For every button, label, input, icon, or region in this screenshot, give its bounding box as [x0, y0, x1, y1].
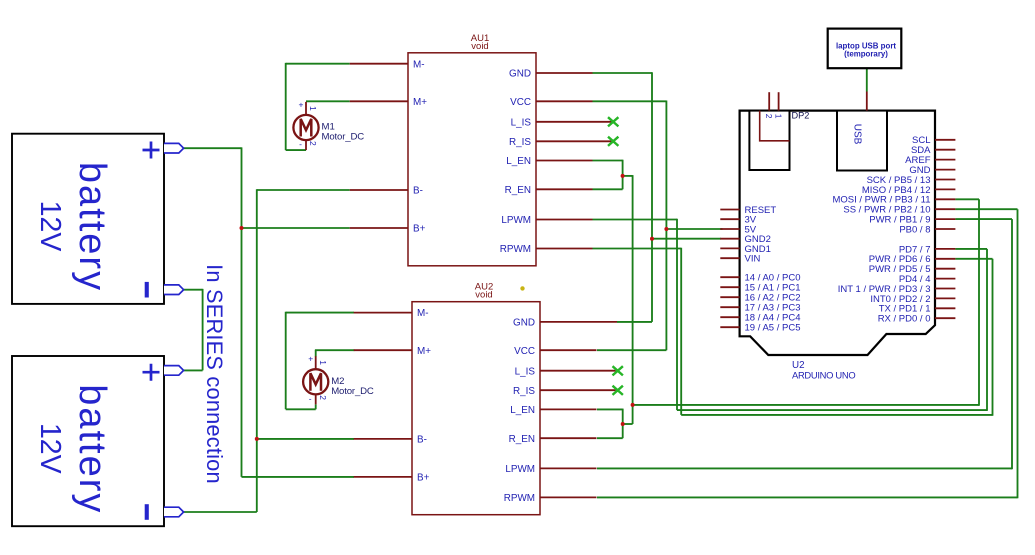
AU2 pin B+	[354, 473, 430, 484]
M2 name label	[331, 376, 374, 397]
wire B+ branch to AU1 B+	[242, 227, 350, 229]
svg-text:RX / PD0 / 0: RX / PD0 / 0	[878, 314, 931, 325]
svg-text:1: 1	[308, 106, 318, 111]
svg-text:+: +	[308, 354, 313, 364]
arduino pin PWR / PD5 / 5	[869, 264, 956, 275]
wire battery1- to battery2+	[184, 289, 203, 371]
svg-text:battery: battery	[71, 162, 113, 292]
wire motor M1 pin1 to AU1 M+	[306, 100, 350, 102]
wire B- branch to AU2 B-	[257, 438, 354, 440]
AU2 label	[475, 282, 493, 301]
svg-text:battery: battery	[71, 384, 113, 514]
svg-text:GND: GND	[509, 69, 531, 80]
svg-text:L_IS: L_IS	[515, 366, 536, 377]
12V battery 2 plus symbol	[143, 364, 160, 381]
AU2 pin B-	[354, 435, 427, 446]
svg-text:R_EN: R_EN	[505, 185, 531, 196]
arduino pin INT0 / PD2 / 2	[870, 294, 955, 305]
arduino pin 18 / A4 / PC4	[720, 313, 800, 324]
battery 12V battery 2 body	[12, 356, 164, 526]
12V battery 1 positive terminal	[164, 143, 184, 153]
M2 pin labels	[308, 354, 328, 404]
junction 5V / arduino 5V	[664, 227, 668, 231]
AU1 pin RPWM	[500, 244, 593, 255]
arduino pin 15 / A1 / PC1	[720, 283, 800, 294]
svg-text:M+: M+	[417, 346, 431, 357]
AU1 pin LPWM	[501, 215, 592, 226]
svg-text:B-: B-	[413, 186, 423, 197]
DP2 label	[792, 111, 810, 121]
AU2 pin L_EN	[510, 405, 596, 416]
arduino pin PB0 / 8	[899, 224, 955, 235]
laptop USB port label	[836, 42, 896, 59]
svg-text:19 / A5 / PC5: 19 / A5 / PC5	[745, 323, 801, 334]
no-connect X on AU1 R_IS	[608, 137, 618, 146]
12V battery 1 plus symbol	[143, 142, 160, 159]
arduino pin SCK / PB5 / 13	[867, 175, 956, 186]
M1 pin labels	[299, 99, 319, 149]
wire AU1 B- to B- net vertical	[257, 189, 350, 512]
battery 12V battery 1 body	[12, 134, 164, 304]
AU2 pin RPWM	[504, 493, 597, 504]
AU1 pin L_IS	[511, 117, 612, 128]
arduino U2 body	[740, 111, 935, 355]
svg-text:R_IS: R_IS	[509, 137, 531, 148]
svg-text:In SERIES connection: In SERIES connection	[202, 264, 227, 484]
12V battery 1 label	[34, 162, 113, 292]
svg-text:M+: M+	[413, 97, 427, 108]
svg-text:Motor_DC: Motor_DC	[331, 386, 374, 397]
AU2 pin GND	[513, 318, 617, 329]
AU2 pin L_IS	[515, 366, 616, 377]
M1 pin 2	[305, 140, 307, 150]
arduino pin 17 / A3 / PC3	[720, 303, 800, 314]
arduino pin PD4 / 4	[899, 274, 956, 285]
DP2 connector box	[749, 111, 789, 170]
junction B- / AU2 B-	[255, 437, 259, 441]
wire EN net branch right	[623, 175, 633, 405]
AU1 pin R_EN	[505, 185, 593, 196]
svg-text:B+: B+	[417, 473, 430, 484]
USB connector box	[837, 111, 887, 171]
svg-text:1: 1	[773, 114, 783, 119]
no-connect X on AU2 R_IS	[613, 386, 623, 395]
M2 pin 1	[315, 356, 317, 369]
motor driver AU1 body	[408, 53, 536, 266]
svg-text:VIN: VIN	[745, 254, 761, 265]
arduino pin AREF	[905, 155, 955, 166]
arduino pin MISO / PB4 / 12	[862, 185, 956, 196]
arduino U2 name label	[792, 360, 855, 381]
DP2 inner pin frame	[760, 111, 790, 141]
svg-text:M-: M-	[413, 59, 425, 70]
svg-text:void: void	[475, 290, 492, 301]
motor M1 body	[293, 115, 318, 140]
wire AU2 EN branch up to EN net	[623, 405, 633, 424]
arduino pin RESET	[720, 205, 776, 216]
AU1 pin L_EN	[506, 156, 592, 167]
svg-text:2: 2	[308, 141, 318, 146]
svg-text:-: -	[309, 393, 312, 403]
AU2 pin VCC	[514, 346, 596, 357]
svg-text:USB: USB	[852, 124, 863, 145]
wire laptop USB port to arduino USB	[866, 68, 868, 92]
motor driver AU2 body	[412, 302, 540, 515]
arduino pin 5V	[720, 224, 756, 235]
M1 name label	[322, 122, 365, 143]
arduino pin PWR / PD6 / 6	[869, 254, 956, 265]
12V battery 1 minus symbol	[145, 282, 149, 298]
arduino pin MOSI / PWR / PB3 / 11	[832, 195, 955, 206]
AU1 pin GND	[509, 69, 592, 80]
12V battery 2 positive terminal	[164, 366, 184, 376]
arduino pin TX / PD1 / 1	[879, 304, 956, 315]
DP2 pin 1 stub	[778, 92, 780, 110]
arduino pin RX / PD0 / 0	[878, 314, 956, 325]
AU2 pin R_EN	[509, 434, 597, 445]
12V battery 1 negative terminal	[164, 285, 184, 295]
wire AU1 L_EN to R_EN tie	[593, 160, 623, 190]
arduino pin GND2	[720, 234, 771, 245]
svg-text:12V: 12V	[34, 423, 66, 474]
USB label	[852, 124, 863, 145]
laptop USB port box	[828, 29, 902, 69]
arduino pin VIN	[720, 254, 760, 265]
junction AU2 EN tie	[621, 422, 625, 426]
arduino pin PD7 / 7	[899, 244, 956, 255]
svg-text:R_EN: R_EN	[509, 434, 535, 445]
AU1 pin M-	[350, 59, 425, 70]
svg-text:R_IS: R_IS	[513, 386, 535, 397]
AU1 pin VCC	[510, 97, 592, 108]
arduino pin SDA	[911, 145, 955, 156]
12V battery 2 label	[34, 384, 113, 514]
svg-text:DP2: DP2	[792, 111, 810, 121]
arduino pin 19 / A5 / PC5	[720, 323, 800, 334]
svg-text:(temporary): (temporary)	[844, 49, 888, 58]
AU1 pin B-	[350, 186, 423, 197]
svg-text:L_EN: L_EN	[506, 156, 531, 167]
junction AU1 EN tie	[621, 174, 625, 178]
AU2 pin R_IS	[513, 386, 616, 397]
svg-text:-: -	[299, 139, 302, 149]
wire AU2 RPWM to arduino pin 10	[597, 209, 1018, 498]
svg-text:L_IS: L_IS	[511, 117, 532, 128]
svg-text:2: 2	[318, 395, 328, 400]
M1 pin 1	[305, 102, 307, 115]
svg-text:LPWM: LPWM	[505, 464, 535, 475]
svg-text:L_EN: L_EN	[510, 405, 535, 416]
svg-text:void: void	[471, 41, 488, 52]
arduino pin 3V	[720, 215, 756, 226]
In SERIES connection label	[202, 264, 227, 484]
svg-text:GND: GND	[513, 318, 535, 329]
wire AU2 L_EN to R_EN tie	[597, 409, 623, 439]
svg-text:B-: B-	[417, 435, 427, 446]
svg-text:ARDUINO UNO: ARDUINO UNO	[792, 370, 855, 381]
arduino USB pin stub	[866, 92, 868, 111]
wire AU1 RPWM to arduino pin 6	[593, 248, 993, 416]
yellow dot near AU2 label	[520, 286, 524, 290]
DP2 pin 2 stub	[768, 92, 770, 110]
svg-text:RPWM: RPWM	[500, 244, 531, 255]
junction GND / arduino GND2	[650, 237, 654, 241]
arduino pin PWR / PB1 / 9	[869, 215, 955, 226]
wire motor M2 pin1 to AU2 M+	[315, 350, 355, 356]
svg-text:VCC: VCC	[510, 97, 531, 108]
wire AU2 LPWM to arduino pin 9	[597, 219, 1012, 469]
wire 5V branch to arduino 5V	[666, 228, 722, 230]
svg-text:12V: 12V	[34, 201, 66, 252]
AU1 pin R_IS	[509, 137, 612, 148]
wire EN net to arduino pin 11	[633, 199, 979, 405]
AU2 pin M-	[354, 308, 429, 319]
M2 pin 2	[315, 394, 317, 404]
wire GND branch to arduino GND2	[652, 238, 721, 240]
svg-text:Motor_DC: Motor_DC	[322, 132, 365, 143]
svg-text:RPWM: RPWM	[504, 493, 535, 504]
wire 5V net: AU1 VCC down to AU2 VCC	[593, 101, 667, 351]
wire AU2 M- to motor M2 pin2	[286, 312, 354, 410]
arduino pin GND	[909, 165, 955, 176]
svg-text:VCC: VCC	[514, 346, 535, 357]
arduino pin GND1	[720, 244, 771, 255]
svg-text:B+: B+	[413, 224, 426, 235]
svg-text:+: +	[299, 99, 304, 109]
arduino pin 16 / A2 / PC2	[720, 293, 800, 304]
arduino pin SCL	[912, 135, 955, 146]
12V battery 2 negative terminal	[164, 507, 184, 517]
wire AU1 M- to motor M1 pin2	[286, 63, 350, 150]
AU2 pin LPWM	[505, 464, 596, 475]
no-connect X on AU2 L_IS	[613, 366, 623, 375]
svg-text:2: 2	[764, 114, 774, 119]
arduino pin INT 1 / PWR / PD3 / 3	[838, 284, 956, 295]
junction EN net corner	[631, 403, 635, 407]
svg-text:1: 1	[318, 360, 328, 365]
svg-text:PB0 / 8: PB0 / 8	[899, 224, 930, 235]
arduino pin SS / PWR / PB2 / 10	[843, 205, 955, 216]
motor M2 body	[303, 369, 328, 394]
svg-text:LPWM: LPWM	[501, 215, 531, 226]
DP2 pin numbers	[764, 114, 784, 119]
12V battery 2 minus symbol	[145, 504, 149, 520]
arduino pin 14 / A0 / PC0	[720, 273, 800, 284]
no-connect X on AU1 L_IS	[608, 117, 618, 126]
svg-text:M-: M-	[417, 308, 429, 319]
AU1 pin B+	[350, 224, 426, 235]
wire battery1+ to B+ net vertical	[184, 147, 354, 477]
wire battery2- to B- net	[184, 511, 257, 513]
AU1 pin M+	[350, 97, 428, 108]
wire GND net: AU1 GND down to AU2 GND	[593, 72, 653, 322]
AU2 pin M+	[354, 346, 432, 357]
wire AU1 LPWM to arduino pin 7	[593, 219, 988, 411]
junction B+ / AU1 B+	[240, 226, 244, 230]
AU1 label	[471, 33, 489, 52]
